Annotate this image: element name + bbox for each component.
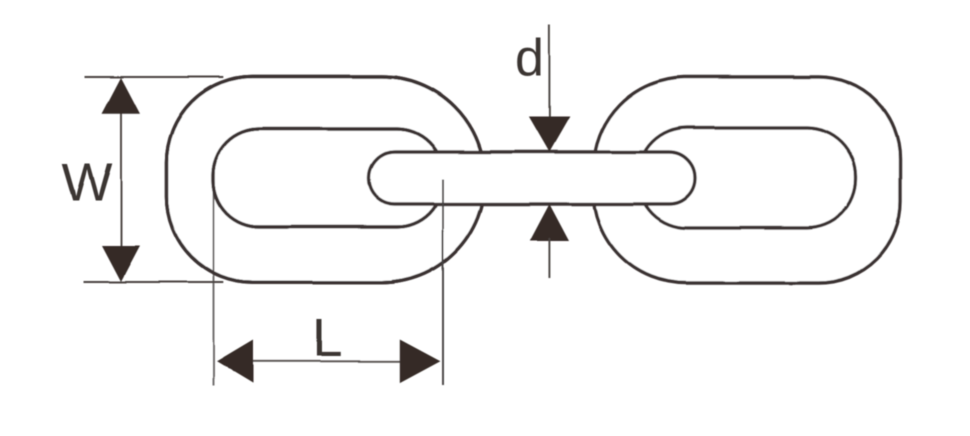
L arrowhead right [400,340,441,384]
d dimension line lower [548,238,550,279]
middle link edge-on bar [369,152,695,204]
left link inner contour restroke over extension line [213,129,443,227]
L extension line left (gray, under link outline) [213,185,215,386]
d arrowhead up onto bar bottom [530,204,569,241]
W top extent tick line [85,76,224,78]
L dimension line [230,360,425,362]
chain link right outer contour [594,77,901,283]
W dimension line [120,90,122,270]
svg-text:W: W [62,153,113,213]
svg-text:d: d [515,30,544,88]
chain link left outer contour [167,77,485,283]
d arrowhead down onto bar top [529,117,570,153]
W bottom extent tick line [84,281,223,283]
left link outer contour restroke over extension line [167,77,485,283]
chain link left inner contour (hole) [213,129,443,227]
W arrowhead down [102,246,140,282]
svg-text:L: L [312,308,342,368]
L extension line right (dark, over bar) [442,179,444,386]
chain link right inner contour (hole) [638,128,856,229]
W arrowhead up [102,78,140,114]
d dimension line upper [548,25,550,140]
L arrowhead left [217,340,253,384]
